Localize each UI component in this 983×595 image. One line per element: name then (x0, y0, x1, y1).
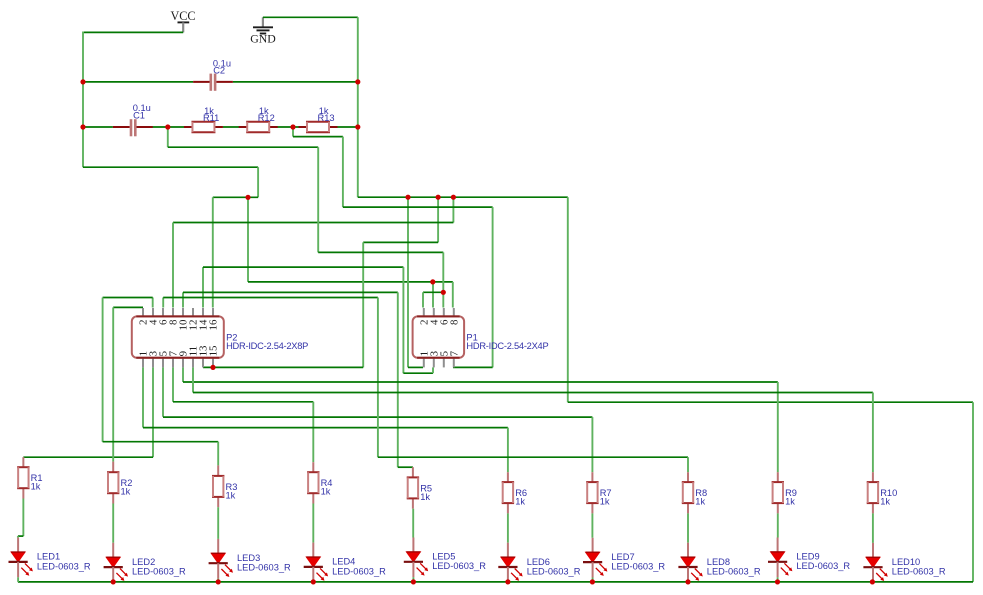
wire GND lower horizontal (568, 401, 973, 403)
wire right (163, 297, 378, 299)
wire VCC branch down (247, 197, 249, 282)
svg-text:LED10: LED10 (892, 557, 920, 567)
wire P2 pin 2 left (113, 306, 143, 308)
svg-text:LED9: LED9 (796, 552, 819, 562)
wire R2 down to LED2 (112, 504, 114, 543)
resistor R13 (299, 122, 338, 132)
connector P1 (413, 308, 465, 367)
LED LED9 (768, 538, 792, 578)
svg-text:LED8: LED8 (707, 557, 730, 567)
svg-text:8: 8 (448, 319, 460, 325)
svg-text:HDR-IDC-2.54-2X8P: HDR-IDC-2.54-2X8P (226, 341, 308, 351)
resistor R3 (212, 465, 224, 507)
wire R13 to GND rail (337, 126, 358, 128)
wire left to R1 (23, 456, 153, 458)
junction node R12-R13 (290, 124, 295, 129)
svg-text:LED-0603_R: LED-0603_R (707, 566, 761, 576)
wire down to LED1 (17, 536, 19, 538)
svg-text:LED-0603_R: LED-0603_R (37, 561, 91, 571)
wire GND branch left (363, 241, 438, 243)
wire down to P1 pin 2 (422, 292, 424, 307)
svg-text:VCC: VCC (170, 9, 195, 23)
wire P2 pin 10 up (182, 292, 184, 307)
junction ground rail at x=688.0 (685, 579, 690, 584)
wire GND down to P1 pin 1 (407, 197, 409, 367)
wire up to P1 pin 3 (432, 367, 434, 373)
svg-text:LED-0603_R: LED-0603_R (892, 567, 946, 577)
wire VCC down to P1 pin 4 (432, 282, 434, 308)
junction ground rail at x=413.4 (411, 579, 416, 584)
svg-text:1k: 1k (695, 497, 705, 507)
resistor R4 (307, 462, 319, 503)
LED LED8 (678, 543, 702, 583)
wire left to P1 pin 7 (453, 366, 493, 368)
junction ground rail at x=592.4 (590, 579, 595, 584)
wire down to R8 (687, 457, 689, 472)
resistor R10 (867, 472, 879, 513)
LED LED1 (9, 538, 33, 578)
wire C2 right to GND rail (233, 81, 358, 83)
junction GND / P2 pin8 branch (451, 195, 456, 200)
wire down to R7 (591, 417, 593, 472)
wire across to right (168, 146, 318, 148)
wire junction C1-R11 down (167, 127, 169, 147)
wire left (103, 297, 153, 299)
wire down (377, 298, 379, 458)
svg-text:1k: 1k (226, 490, 236, 500)
wire down to R9 (777, 382, 779, 472)
svg-text:1k: 1k (880, 497, 890, 507)
wire down right of P1 (492, 207, 494, 367)
wire GND down to P2 pin 8 (172, 223, 174, 308)
wire down mid (317, 147, 319, 252)
wire R7 down to LED7 (591, 513, 593, 537)
wire GND long vertical right side (567, 197, 569, 402)
wire down (342, 137, 344, 208)
svg-text:1k: 1k (515, 497, 525, 507)
wire right to R7 column (163, 416, 592, 418)
wire VCC to P1 pins 4 and 8 (248, 281, 453, 283)
junction ground rail at x=218.2 (216, 579, 221, 584)
wire VCC to C2 left (83, 81, 193, 83)
wire VCC to C1 left (83, 126, 113, 128)
svg-text:LED-0603_R: LED-0603_R (432, 561, 486, 571)
svg-text:LED1: LED1 (37, 552, 60, 562)
wire GND to P2 pin 8 (173, 222, 453, 224)
wire GND branch down to P2 pin13/15 line (362, 242, 364, 367)
wire R5 down to LED5 (412, 509, 414, 538)
svg-text:1k: 1k (785, 497, 795, 507)
wire LED7 to ground rail (592, 578, 594, 582)
junction P1 pin2-pin6 (441, 290, 446, 295)
junction GND / P1 pin1 branch (405, 195, 410, 200)
wire down to R2 (112, 307, 114, 461)
wire right to P1 area (203, 266, 403, 268)
wire LED4 to ground rail (312, 581, 314, 583)
svg-text:LED-0603_R: LED-0603_R (611, 562, 665, 572)
svg-text:C1: C1 (133, 110, 145, 120)
LED LED4 (304, 543, 328, 583)
resistor R5 (407, 467, 419, 509)
junction GND / R13 (355, 124, 360, 129)
svg-text:LED6: LED6 (527, 557, 550, 567)
wire right long (343, 206, 493, 208)
svg-text:LED3: LED3 (237, 553, 260, 563)
power symbol VCC (170, 9, 195, 33)
LED LED7 (583, 538, 607, 578)
wire down to P1 pin 6 (442, 252, 444, 307)
wire LED8 to ground rail (687, 581, 689, 584)
wire GND to P1 pin 1 (408, 366, 423, 368)
junction ground rail at x=777.5 (775, 579, 780, 584)
wire LED6 to ground rail (507, 581, 509, 584)
wire VCC rail right (83, 166, 258, 168)
wire R3 down to LED3 (217, 507, 219, 539)
wire GND branch down (437, 197, 439, 242)
wire GND branch down short (452, 197, 454, 222)
wire right to P1 pin 3 (403, 372, 433, 374)
wire right to R4 column (173, 401, 313, 403)
wire down left of P1 (402, 267, 404, 373)
wire P2 pin 1 down (142, 367, 144, 427)
svg-text:C2: C2 (213, 65, 225, 75)
svg-text:R12: R12 (258, 113, 275, 123)
wire P2 pin 3 down (152, 367, 154, 457)
wire R1 to LED1 jog (22, 499, 24, 537)
junction ground rail at x=113.2 (111, 579, 116, 584)
connector P2 (132, 308, 224, 367)
wire VCC rail corner down (257, 167, 259, 197)
svg-text:LED4: LED4 (332, 557, 355, 567)
wire GND rail right (358, 196, 568, 198)
wire P2 pin 9 down (182, 367, 184, 382)
wire R4 down to LED4 (312, 504, 314, 543)
wire down to R3 (217, 442, 219, 466)
resistor R1 (17, 457, 29, 498)
wire R8 down to LED8 (687, 513, 689, 542)
wire R10 down to LED10 (872, 513, 874, 543)
junction P2 pin13-pin15 (210, 365, 215, 370)
junction GND branch (436, 195, 441, 200)
wire VCC rail left to P2 pin16 column (213, 196, 258, 198)
svg-text:HDR-IDC-2.54-2X4P: HDR-IDC-2.54-2X4P (466, 341, 548, 351)
wire down left of P2 (102, 298, 104, 442)
junction ground rail at x=507.9 (505, 579, 510, 584)
wire C1 to R11 (152, 126, 184, 128)
junction node C1-R11 (165, 124, 170, 129)
wire right to P1 pin6 column (318, 251, 443, 253)
wire GND bottom LED rail (18, 581, 973, 583)
resistor R6 (502, 472, 514, 513)
LED LED10 (863, 543, 887, 583)
svg-text:1k: 1k (600, 497, 610, 507)
wire junction R12-R13 down (292, 127, 294, 137)
wire P2 pin 7 down (172, 367, 174, 401)
resistor R11 (184, 122, 223, 132)
resistor R7 (586, 472, 598, 513)
wire right to R8 column (378, 456, 688, 458)
svg-text:LED2: LED2 (132, 557, 155, 567)
wire GND right edge down (972, 402, 974, 582)
resistor R12 (239, 122, 278, 132)
wire LED3 to ground rail (217, 579, 219, 582)
ground symbol GND (250, 17, 276, 45)
wire right (293, 136, 343, 138)
wire LED10 to ground rail (872, 581, 874, 584)
junction VCC / P1 pin4 (430, 279, 435, 284)
wire down to R6 (507, 428, 509, 473)
svg-text:R11: R11 (203, 113, 219, 123)
wire down to R4 (312, 402, 314, 462)
svg-text:1k: 1k (31, 482, 41, 492)
svg-text:16: 16 (208, 319, 220, 330)
wire GND rail down (357, 17, 359, 197)
wire LED2 to ground rail (112, 581, 114, 584)
svg-text:LED-0603_R: LED-0603_R (527, 566, 581, 576)
wire VCC symbol to left rail (83, 31, 183, 33)
svg-text:7: 7 (448, 350, 460, 356)
wire VCC left rail down (82, 32, 84, 168)
svg-text:LED-0603_R: LED-0603_R (796, 561, 850, 571)
svg-text:LED-0603_R: LED-0603_R (132, 567, 186, 577)
LED LED3 (209, 539, 233, 579)
wire LED5 to ground rail (412, 577, 414, 582)
svg-text:1k: 1k (121, 487, 131, 497)
svg-text:R13: R13 (318, 113, 335, 123)
wire right to R3 (103, 441, 219, 443)
wire P2 pin 11 down (192, 367, 194, 392)
LED LED6 (498, 543, 522, 583)
svg-text:15: 15 (208, 345, 220, 356)
wire right to R10 column (193, 392, 873, 394)
wire P2 pin 5 down (162, 367, 164, 416)
wire R12 to R13 (277, 126, 299, 128)
capacitor C2 (193, 74, 233, 91)
junction GND / C2 row (355, 79, 360, 84)
junction VCC / C1 row (80, 124, 85, 129)
wire P2 pin 6 up (162, 298, 164, 308)
svg-text:1k: 1k (420, 492, 430, 502)
junction ground rail at x=313.3 (311, 579, 316, 584)
svg-text:LED-0603_R: LED-0603_R (332, 566, 386, 576)
wire right (183, 291, 398, 293)
resistor R2 (107, 462, 119, 504)
wire LED9 to ground rail (777, 577, 779, 582)
wire R6 down to LED6 (507, 513, 509, 542)
wire GND to P2 pins 13 and 15 (203, 366, 363, 368)
wire R9 down to LED9 (777, 513, 779, 537)
LED LED5 (404, 538, 428, 578)
LED LED2 (104, 543, 128, 583)
wire down to R5 jog (397, 292, 399, 467)
resistor R9 (772, 472, 784, 513)
capacitor C1 (113, 119, 153, 136)
wire right to R9 column (183, 381, 778, 383)
junction VCC / C2 row (80, 79, 85, 84)
svg-text:1k: 1k (321, 487, 331, 497)
resistor R8 (682, 472, 694, 513)
wire VCC down to P2 pin 16 (212, 197, 214, 307)
wire VCC down to P1 pin 8 (452, 282, 454, 308)
wire down to R10 (872, 393, 874, 473)
wire R11 to R12 (223, 126, 239, 128)
wire P1 pin2 to pin6 link (423, 291, 443, 293)
wire jog right to R5 (398, 466, 413, 468)
wire P2 pin 14 up (202, 267, 204, 307)
wire LED1 to ground rail (17, 577, 19, 582)
svg-text:LED5: LED5 (432, 552, 455, 562)
wire P2 pin 4 up (152, 298, 154, 308)
svg-text:LED-0603_R: LED-0603_R (237, 563, 291, 573)
junction VCC branch (245, 195, 250, 200)
wire GND symbol to right rail (263, 16, 358, 18)
wire right to R6 column (143, 427, 508, 429)
svg-text:LED7: LED7 (611, 552, 634, 562)
junction ground rail at x=872.4 (870, 579, 875, 584)
wire jog left above LED1 (18, 535, 23, 537)
svg-text:GND: GND (250, 32, 276, 46)
